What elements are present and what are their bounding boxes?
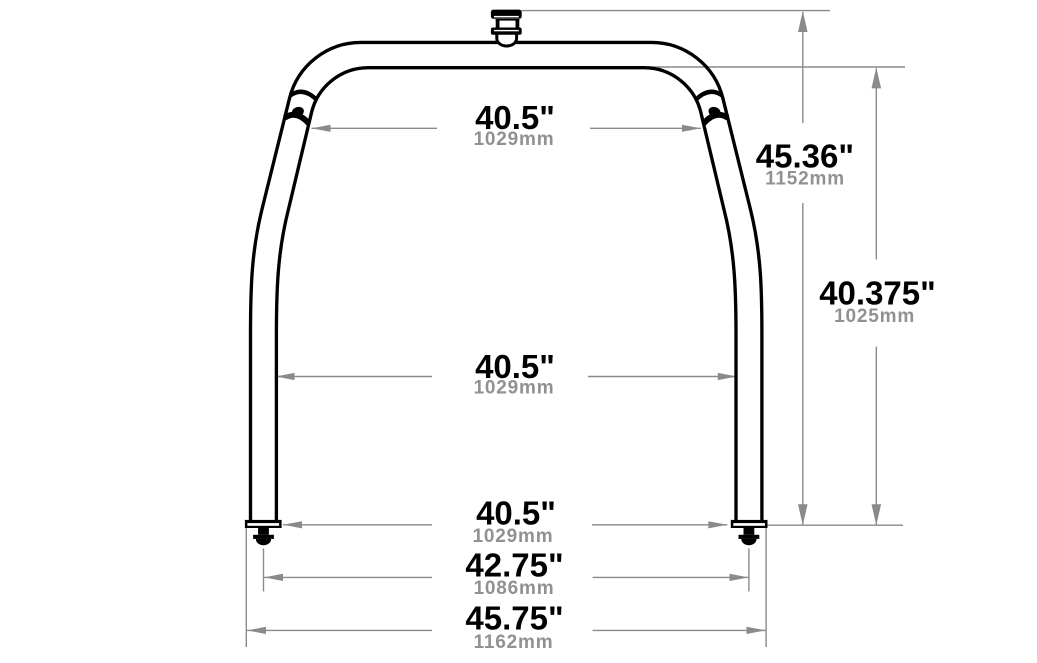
main roll bar hoop tube inner outline [276,68,736,521]
arrow 40.5 bottom right [708,521,727,528]
svg-text:1152mm: 1152mm [765,168,845,189]
dimension line 40.5 bottom [283,524,432,526]
top fitting neck [496,19,500,29]
svg-text:45.75": 45.75" [465,599,563,636]
arrow 40.5 top right [682,125,701,132]
extension line from top of fitting (45.36 ref) [522,10,830,12]
baseline extension line at foot level [768,524,904,526]
arrow 40.5 middle left [276,373,295,380]
top fitting cap 2 [491,28,522,35]
upper band left [290,92,316,100]
arrow 42.75 left [264,574,283,581]
top fitting cap 1 [491,10,522,19]
svg-text:1025mm: 1025mm [834,306,915,327]
arrow 45.75 right [747,627,766,634]
extension line left bolt center (42.75 ref) [263,548,265,591]
extension line right bolt center (42.75 ref) [748,548,750,591]
extension line from inner top tube (40.375 ref) [648,66,905,68]
dimension line 40.5 middle [276,376,432,378]
svg-text:1029mm: 1029mm [474,129,555,150]
extension line right plate outer edge (45.75 ref) [765,527,767,647]
arrow 45.75 left [247,627,266,634]
dimension line 40.375 vertical [875,69,877,260]
right base plate + bolt (mirror) [731,520,768,545]
svg-text:1086mm: 1086mm [474,578,555,599]
dimension line 45.75 [247,629,432,631]
left bolt [258,528,269,535]
extension line left plate outer edge (45.75 ref) [245,528,247,647]
lower band left [285,115,309,124]
arrow 45.36 down [798,504,808,525]
arrow 45.36 up [798,11,808,32]
dimension line 40.5 top [312,127,438,129]
svg-text:1029mm: 1029mm [473,526,554,547]
arrow 42.75 right [730,574,749,581]
arrow 40.5 bottom left [283,521,302,528]
arrow 40.5 top left [312,125,331,132]
left base plate [245,520,282,545]
svg-text:1162mm: 1162mm [474,632,554,653]
bolt dot left [291,105,306,118]
arrow 40.5 middle right [718,373,737,380]
left joint clamp group [285,92,317,124]
svg-text:1029mm: 1029mm [474,377,555,398]
arrow 40.375 down [872,504,882,525]
dimension line 45.36 vertical [802,12,804,123]
dimension line 42.75 [264,576,432,578]
top fitting dome [497,33,517,46]
right joint clamp group (mirror) [696,92,728,124]
arrow 40.375 up [872,67,882,88]
main roll bar hoop tube outer outline [251,42,762,521]
